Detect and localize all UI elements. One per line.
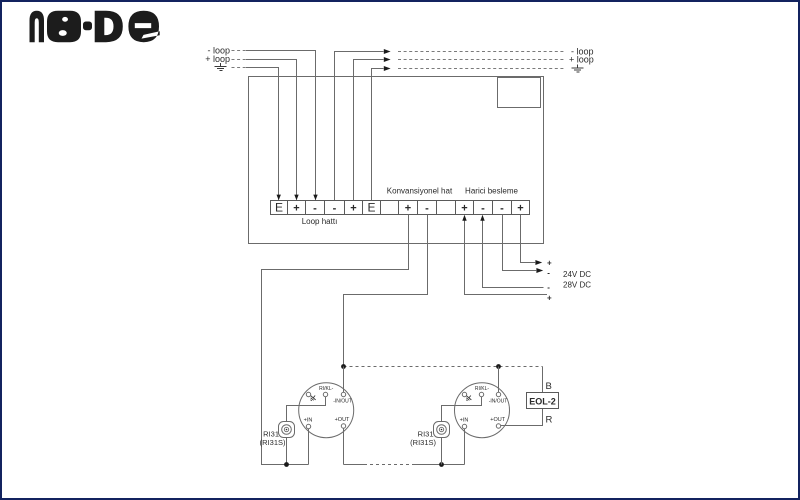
D2 earth glyph xyxy=(464,393,473,402)
node J2 xyxy=(496,364,501,369)
node J4 xyxy=(439,462,444,467)
wire D2 +out to EOL xyxy=(501,409,543,426)
terminal labels xyxy=(275,201,524,215)
wire earth in dashed lead xyxy=(232,67,247,69)
panel box xyxy=(249,77,544,244)
wire +loop in xyxy=(246,60,297,200)
wire RI31-1 down xyxy=(286,438,288,465)
detector D2 xyxy=(455,383,510,438)
EOL-2 resistor xyxy=(527,393,559,409)
wire earth out xyxy=(372,69,384,201)
wire harici + 28V xyxy=(465,221,548,295)
node J1 xyxy=(341,364,346,369)
wire D2 -in/out up xyxy=(498,367,500,393)
wire +loop in dashed lead xyxy=(232,59,247,61)
wire D1 -in/out up xyxy=(343,367,345,393)
loop chain dashed top xyxy=(344,366,543,368)
wire -loop out xyxy=(335,52,384,201)
wire D1 +in down xyxy=(308,429,310,465)
wire D2 +in down xyxy=(464,429,466,465)
wire harici + 24V xyxy=(521,215,536,263)
wire EOL B xyxy=(542,367,544,393)
chain bottom wire D1 to D2 xyxy=(344,464,365,466)
terminal strip xyxy=(271,201,530,215)
detector D1 xyxy=(299,383,354,438)
D1 earth glyph xyxy=(309,393,318,402)
wire D1 ri/kl to RI31 xyxy=(287,397,326,422)
wire -loop in dashed lead xyxy=(232,50,247,52)
ground symbol left xyxy=(215,63,227,71)
wire +loop out xyxy=(354,60,384,201)
logo na-de xyxy=(30,11,160,43)
wire RI31-2 down xyxy=(441,438,443,465)
wire earth in xyxy=(246,68,279,200)
RI31 unit 1 xyxy=(279,422,295,438)
display box xyxy=(498,78,541,108)
wire harici - 24V xyxy=(503,215,537,271)
wire konv - xyxy=(344,215,428,367)
wire D2 ri/kl to RI31 xyxy=(442,397,482,422)
RI31 unit 2 xyxy=(434,422,450,438)
wire harici - 28V xyxy=(483,221,544,288)
wire -loop in xyxy=(246,51,316,200)
wire konv + xyxy=(262,215,409,465)
ground symbol right xyxy=(572,65,584,73)
node J3 xyxy=(284,462,289,467)
wire D1 +out down xyxy=(343,428,345,464)
